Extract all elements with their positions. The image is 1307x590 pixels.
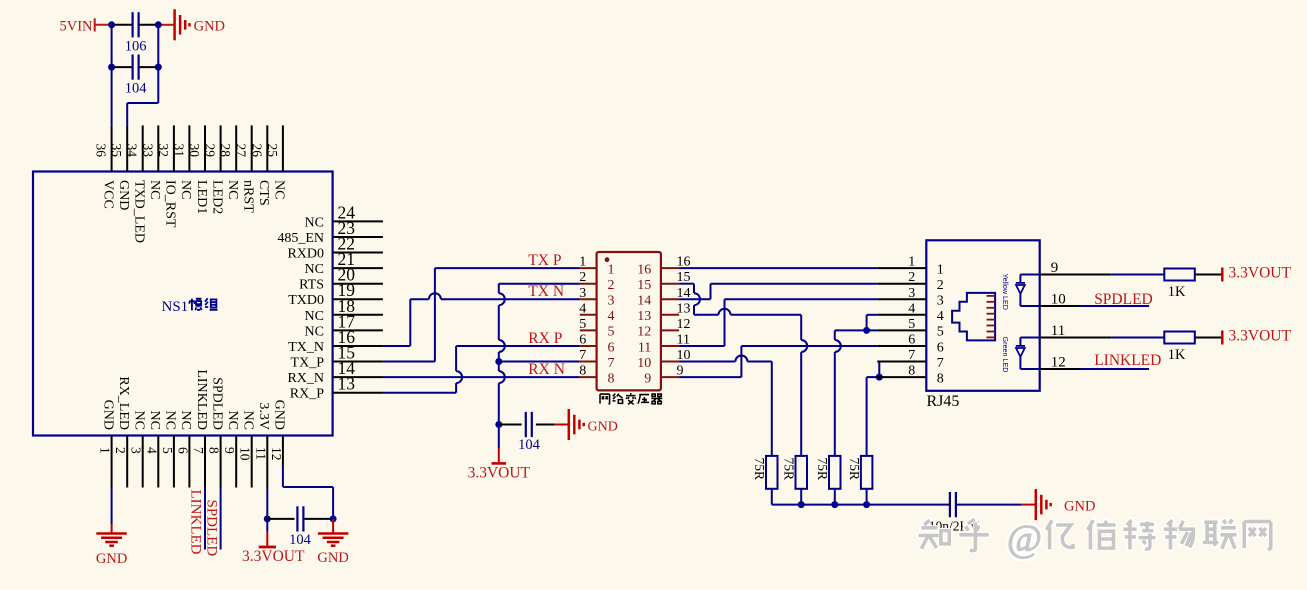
svg-text:4: 4 [608,309,615,324]
svg-text:15: 15 [637,278,651,293]
svg-text:6: 6 [937,340,944,355]
svg-text:RXD0: RXD0 [287,247,324,262]
svg-text:3: 3 [129,447,144,454]
svg-text:TX N: TX N [528,283,564,300]
svg-text:35: 35 [109,144,124,158]
svg-text:1K: 1K [1168,347,1186,363]
svg-text:RX_P: RX_P [290,387,324,402]
svg-text:3: 3 [908,286,915,301]
svg-text:33: 33 [140,144,155,158]
svg-text:12: 12 [269,447,284,461]
svg-text:IO_RST: IO_RST [163,180,178,228]
svg-text:LED1: LED1 [194,180,209,214]
svg-text:13: 13 [338,374,356,394]
svg-text:6: 6 [579,333,586,348]
svg-text:TX_N: TX_N [288,340,324,355]
svg-text:VCC: VCC [100,180,115,209]
svg-text:4: 4 [144,447,159,454]
svg-text:12: 12 [637,325,651,340]
svg-text:8: 8 [937,371,944,386]
svg-text:RJ45: RJ45 [927,393,960,410]
svg-text:GND: GND [96,551,127,567]
svg-text:485_EN: 485_EN [277,231,324,246]
svg-text:3.3VOUT: 3.3VOUT [242,548,305,565]
svg-text:11: 11 [638,340,651,355]
svg-text:36: 36 [94,144,109,158]
svg-text:NC: NC [305,324,324,339]
svg-text:NC: NC [305,215,324,230]
svg-text:6: 6 [175,447,190,454]
svg-text:5: 5 [608,325,615,340]
svg-text:LINKLED: LINKLED [194,369,209,430]
svg-text:4: 4 [579,301,586,316]
svg-text:11: 11 [1051,323,1065,339]
svg-text:104: 104 [518,437,541,453]
svg-text:GND: GND [272,400,287,430]
svg-text:11: 11 [253,447,268,460]
svg-text:5: 5 [937,325,944,340]
svg-text:TX_P: TX_P [291,356,325,371]
svg-text:RX P: RX P [528,330,562,347]
svg-text:29: 29 [203,144,218,158]
svg-text:10: 10 [637,356,651,371]
svg-text:@: @ [1007,518,1042,560]
svg-text:32: 32 [156,144,171,158]
svg-text:31: 31 [171,144,186,158]
svg-text:SPDLED: SPDLED [1094,291,1153,308]
svg-text:GND: GND [1064,499,1095,515]
svg-text:NS1: NS1 [162,299,189,315]
svg-text:GND: GND [116,180,131,210]
svg-text:3: 3 [937,294,944,309]
svg-text:5VIN: 5VIN [59,18,93,34]
svg-text:7: 7 [908,348,915,363]
svg-text:NC: NC [178,180,193,199]
svg-text:GND: GND [100,400,115,430]
svg-text:1: 1 [98,447,113,454]
svg-text:6: 6 [608,340,615,355]
svg-text:NC: NC [272,180,287,199]
svg-text:SPDLED: SPDLED [209,377,224,430]
svg-text:12: 12 [677,317,691,332]
svg-text:16: 16 [637,262,651,277]
svg-text:3: 3 [579,286,586,301]
svg-text:GND: GND [317,550,348,566]
svg-text:Yellow LED: Yellow LED [1001,274,1010,311]
svg-text:LINKLED: LINKLED [188,490,204,555]
svg-text:NC: NC [163,411,178,430]
svg-text:NC: NC [147,180,162,199]
svg-text:75R: 75R [815,458,830,481]
svg-text:34: 34 [125,144,140,158]
svg-text:5: 5 [160,447,175,454]
svg-text:8: 8 [207,447,222,454]
svg-text:27: 27 [234,144,249,158]
svg-text:SPDLED: SPDLED [204,500,220,557]
svg-text:106: 106 [125,39,147,55]
svg-text:1: 1 [608,262,615,277]
svg-text:1: 1 [908,255,915,270]
svg-text:1K: 1K [1168,284,1186,300]
svg-text:NC: NC [305,309,324,324]
svg-text:CTS: CTS [256,180,271,206]
svg-text:GND: GND [588,420,618,435]
svg-text:NC: NC [147,411,162,430]
svg-text:2: 2 [113,447,128,454]
svg-text:2: 2 [608,278,615,293]
svg-text:104: 104 [289,532,312,548]
svg-text:12: 12 [1051,355,1066,371]
svg-text:NC: NC [241,411,256,430]
svg-text:7: 7 [579,348,586,363]
svg-text:28: 28 [218,144,233,158]
svg-text:75R: 75R [752,458,767,481]
svg-text:3.3VOUT: 3.3VOUT [1229,265,1292,282]
svg-text:9: 9 [222,447,237,454]
svg-text:1: 1 [579,255,586,270]
svg-text:RTS: RTS [299,278,324,293]
svg-text:LED2: LED2 [209,180,224,214]
svg-text:NC: NC [225,180,240,199]
svg-text:3: 3 [608,294,615,309]
svg-text:3.3VOUT: 3.3VOUT [468,465,531,482]
svg-text:8: 8 [908,364,915,379]
svg-text:TXD0: TXD0 [288,293,324,308]
svg-text:9: 9 [1051,260,1059,276]
svg-text:2: 2 [908,270,915,285]
svg-text:7: 7 [608,356,615,371]
svg-text:9: 9 [644,371,651,386]
svg-text:3.3V: 3.3V [256,402,271,430]
svg-text:NC: NC [132,411,147,430]
svg-text:NC: NC [178,411,193,430]
svg-text:RX N: RX N [528,361,565,378]
svg-text:TXD_LED: TXD_LED [132,180,147,243]
svg-text:13: 13 [637,309,651,324]
svg-text:1: 1 [937,262,944,277]
svg-text:NC: NC [225,411,240,430]
svg-text:NC: NC [305,262,324,277]
svg-text:RX_N: RX_N [287,371,324,386]
svg-text:8: 8 [608,371,615,386]
svg-text:GND: GND [194,18,225,34]
svg-text:3.3VOUT: 3.3VOUT [1229,328,1292,345]
svg-text:TX P: TX P [528,252,561,269]
svg-text:75R: 75R [781,458,796,481]
svg-text:Green LED: Green LED [1001,337,1010,373]
svg-text:75R: 75R [847,458,862,481]
svg-text:10: 10 [238,447,253,461]
svg-text:4: 4 [908,301,915,316]
svg-text:8: 8 [579,364,586,379]
svg-text:LINKLED: LINKLED [1094,352,1161,369]
svg-text:RX_LED: RX_LED [116,376,131,430]
svg-text:14: 14 [637,294,651,309]
svg-text:nRST: nRST [241,180,256,213]
svg-text:26: 26 [249,144,264,158]
svg-text:5: 5 [579,317,586,332]
svg-text:25: 25 [265,144,280,158]
svg-text:7: 7 [191,447,206,454]
svg-text:2: 2 [937,278,944,293]
svg-text:5: 5 [908,317,915,332]
svg-text:4: 4 [937,309,944,324]
svg-text:2: 2 [579,270,586,285]
svg-text:30: 30 [187,144,202,158]
svg-text:7: 7 [937,356,944,371]
svg-text:13: 13 [677,301,691,316]
svg-text:10: 10 [1051,292,1066,308]
svg-text:6: 6 [908,333,915,348]
svg-text:104: 104 [125,80,148,96]
